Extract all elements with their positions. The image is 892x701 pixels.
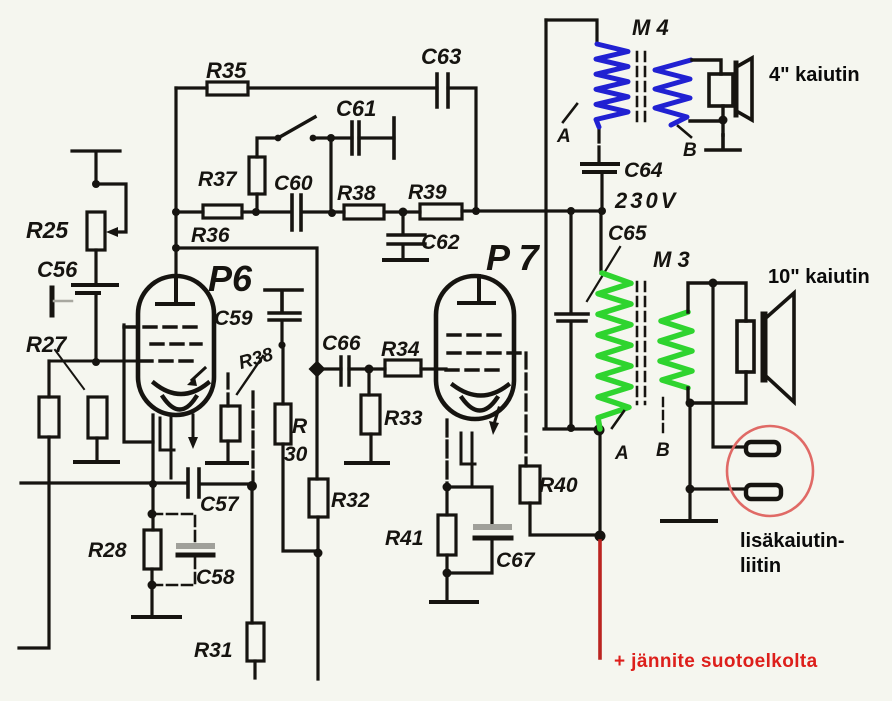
wire M4 sec top to speaker [692,60,721,74]
wire M4 primary top feed [546,20,597,44]
wire grid leak down to R31 [251,392,254,486]
resistor R38 [344,205,384,219]
wire top to R35 [176,86,437,89]
tube P6 grid rows [124,325,202,328]
capacitor C57 [188,469,199,497]
svg-text:R28: R28 [88,539,127,562]
svg-text:A: A [556,126,571,147]
svg-text:R25: R25 [26,217,69,243]
resistor R39 [420,204,462,219]
svg-text:R38: R38 [337,182,376,205]
wire C63 to P7 plate [448,88,476,211]
ground [75,460,118,464]
svg-text:P 7: P 7 [486,237,541,278]
resistor R37 [249,157,265,194]
node diamond junction [309,361,326,378]
resistor R27 [39,397,59,437]
wire C56 to grid node [94,293,97,362]
pointer A M3 [612,411,624,428]
capacitor C60 [292,195,301,230]
svg-text:R35: R35 [206,58,247,83]
wire to connector 1 [713,283,745,447]
pointer R27 [55,350,84,389]
svg-text:C66: C66 [322,332,361,355]
svg-text:4" kaiutin: 4" kaiutin [769,64,860,86]
tube P7 grid rows [448,333,505,336]
wire M3 sec top rail [688,283,746,321]
tube P7 arrow [494,408,499,424]
svg-text:+ jännite suotoelkolta: + jännite suotoelkolta [614,651,818,672]
wire P7 cathode lead [445,420,448,487]
svg-text:C57: C57 [200,493,240,516]
svg-text:R27: R27 [26,332,68,357]
svg-text:R33: R33 [384,407,423,430]
svg-text:30: 30 [284,443,308,466]
svg-text:C65: C65 [608,222,647,245]
node feed [595,531,606,542]
transformer M3 primary coil [598,273,631,429]
wire plate supply vertical [174,88,177,303]
tube P7 envelope [436,276,514,419]
transformer M4 primary coil [596,44,628,127]
node grid junction [92,358,100,366]
heater hook P6 [160,418,174,478]
svg-text:C56: C56 [37,257,78,282]
resistor R31 [247,623,264,661]
svg-text:M 4: M 4 [632,15,669,40]
svg-text:R36: R36 [191,224,230,247]
node A1 [92,180,100,188]
resistor R25 (pot) [87,212,105,250]
ground M3 [662,519,716,523]
ground [207,461,247,465]
svg-text:B: B [683,140,697,161]
wire P6 cathode lead [151,415,154,484]
resistor R30 [275,404,291,444]
svg-text:A: A [614,443,629,464]
wire R27 down to bottom left [19,437,49,648]
ground R41 [431,600,477,604]
speaker 4in driver [709,74,733,106]
svg-text:B: B [656,440,670,461]
wire M4 sec bottom [690,106,723,135]
svg-text:R31: R31 [194,639,233,662]
transformer M4 secondary coil [655,60,691,125]
wire R32 down [316,517,319,679]
resistor R35 [207,82,248,95]
lead arrow P6 [192,415,195,437]
svg-text:C64: C64 [624,159,663,182]
svg-text:C59: C59 [214,307,253,330]
wire 230V node to M3 primary [599,211,602,273]
speaker 4in cone [738,58,752,120]
connector plug 2 [746,485,781,499]
capacitor C61 [331,136,394,139]
wire C59 to R30 [281,347,284,404]
wire R30 down to R32 node [283,444,318,551]
speaker 10in cone [767,293,794,402]
tube P6 arrow [192,368,205,380]
heater hook P7 [461,433,475,486]
node R34 junction [365,365,374,374]
svg-text:P6: P6 [208,258,253,299]
wire to ground [95,438,98,461]
svg-text:M 3: M 3 [653,247,690,272]
wire long grid-leak horizontal C57 line [21,483,252,484]
svg-text:C67: C67 [496,549,536,572]
capacitor C62 [401,212,404,259]
tube P7 plate [459,276,494,303]
svg-text:R39: R39 [408,181,447,204]
capacitor C66 [317,367,369,370]
tube P7 cathode arcs [453,385,508,396]
resistor R34 [369,367,446,370]
resistor R28 [144,530,161,569]
svg-text:C62: C62 [421,231,460,254]
node T-bar top of R25 pot [72,151,120,184]
wire main 210 line [176,211,602,212]
pointer B M4 [678,126,691,137]
svg-text:R40: R40 [539,474,578,497]
node cathode-C57 [149,480,157,488]
svg-text:C61: C61 [336,96,376,121]
capacitor C64 [597,128,600,162]
svg-text:R32: R32 [331,489,370,512]
ground M4 speaker [706,135,740,150]
svg-text:C63: C63 [421,44,461,69]
svg-text:230V: 230V [614,188,678,213]
svg-text:liitin: liitin [740,555,781,577]
wire bottom rail to A node [544,427,598,430]
transformer M4 core [637,52,645,122]
wire +HT red [598,541,602,658]
wire R25 to C56 [94,250,97,284]
wire C61 node down [329,138,332,213]
wire R36 lower node to R32 line [176,248,317,479]
svg-text:C60: C60 [274,172,313,195]
resistor R26 mid [88,397,107,438]
svg-text:R37: R37 [198,168,238,191]
ground R33 [346,461,388,465]
wire HT rail vertical [544,20,547,428]
resistor R41 [445,487,448,515]
R38 pointer [237,356,263,394]
capacitor C65 branch [569,211,572,429]
wire P6 left bracket [124,325,153,442]
node dots on 210 line [172,208,180,216]
tube P6 plate [157,276,193,304]
screen resistor under P6 [226,374,229,406]
resistor R33 [367,369,370,395]
node A (M3 primary bottom) [594,425,605,436]
svg-text:10" kaiutin: 10" kaiutin [768,266,870,288]
wire A node to feed node [598,431,601,536]
speaker 10in driver [737,321,754,372]
wire to connector 2 [688,403,691,489]
ground R28 [133,615,180,619]
transformer M3 secondary coil [660,312,692,388]
svg-text:lisäkaiutin-: lisäkaiutin- [740,530,844,552]
wire screen to R40 [524,353,527,466]
resistor R40 [520,466,540,503]
switch S [275,135,282,142]
pointer A M4 [563,104,577,122]
tube P6 cathode arcs [154,383,208,394]
connector plug 1 [746,442,779,455]
capacitor C67 [447,487,492,524]
wire cathode to R28 [151,484,154,530]
resistor R32 [309,479,328,517]
capacitor C63 [437,74,448,107]
tube P6 envelope [138,276,214,415]
capacitor C59 [265,290,302,312]
wire grid line to P6 [50,360,136,363]
svg-text:R34: R34 [381,338,420,361]
pointer B M3 [662,398,664,432]
label R38 scribble [236,344,276,374]
resistor R36 [203,205,242,218]
pointer C65 [587,247,620,301]
wire M3 sec bottom rail [688,372,746,403]
capacitor C56 [73,283,117,287]
wire R25 wiper bracket [96,184,126,232]
svg-text:R: R [292,415,308,438]
svg-text:C58: C58 [196,566,235,589]
wire R27 lead [47,361,50,397]
capacitor C58 [152,514,195,543]
annotation red circle [727,426,813,516]
svg-text:R41: R41 [385,527,424,550]
transformer M3 core [637,282,645,404]
